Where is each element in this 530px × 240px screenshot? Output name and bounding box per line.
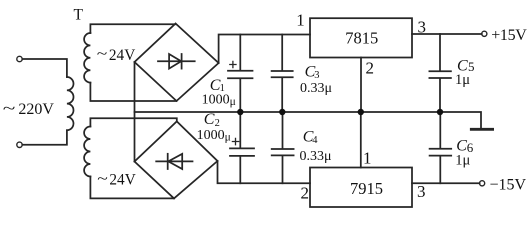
svg-text:3: 3 [418,18,427,37]
svg-text:0.33μ: 0.33μ [300,81,332,96]
svg-text:3: 3 [314,70,319,81]
svg-text:1μ: 1μ [455,72,470,88]
svg-text:+15V: +15V [491,27,527,44]
svg-text:2: 2 [366,58,375,77]
svg-text:0.33μ: 0.33μ [300,149,332,164]
svg-text:~: ~ [3,100,16,117]
svg-text:−15V: −15V [490,176,527,193]
svg-text:4: 4 [312,135,318,146]
svg-text:T: T [74,6,84,23]
svg-text:3: 3 [417,182,426,201]
svg-text:7815: 7815 [345,29,378,48]
svg-text:2: 2 [301,183,310,202]
svg-text:~: ~ [97,170,108,186]
svg-text:1: 1 [296,11,305,30]
svg-text:1: 1 [363,149,372,168]
svg-text:C: C [204,111,215,128]
svg-text:1000μ: 1000μ [202,92,236,108]
svg-text:7915: 7915 [350,179,383,198]
svg-text:1000μ: 1000μ [197,128,231,144]
svg-text:~: ~ [97,46,108,62]
svg-text:220V: 220V [18,101,54,118]
svg-text:24V: 24V [109,47,135,64]
svg-text:1μ: 1μ [455,153,470,169]
svg-text:24V: 24V [109,172,135,189]
